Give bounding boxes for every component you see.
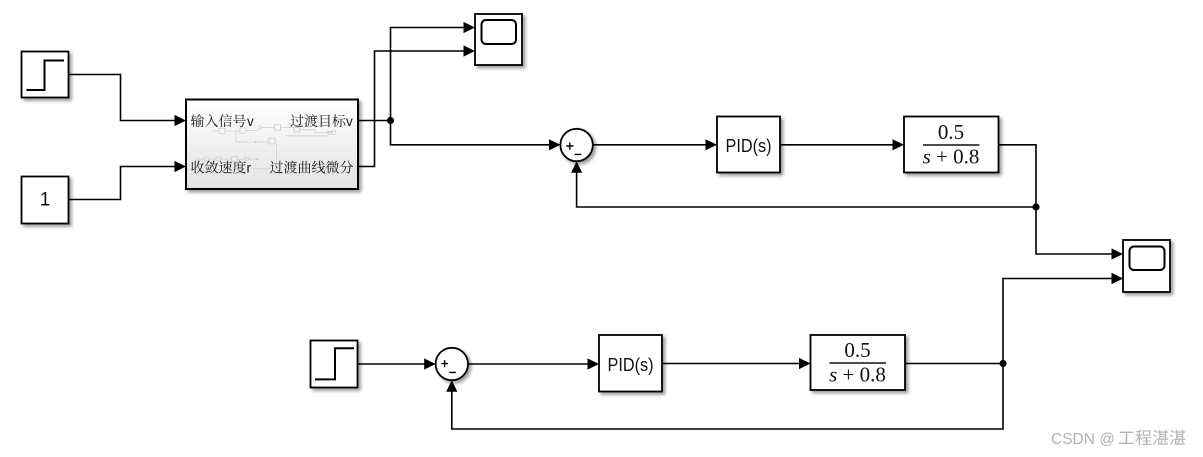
svg-text:0.5: 0.5 — [938, 120, 964, 144]
svg-text:0.5: 0.5 — [844, 338, 870, 362]
svg-text:s + 0.8: s + 0.8 — [829, 363, 886, 387]
svg-text:s + 0.8: s + 0.8 — [923, 145, 980, 169]
svg-text:v: v — [346, 114, 353, 129]
svg-text:r: r — [247, 160, 252, 175]
svg-text:1: 1 — [40, 190, 51, 211]
svg-text:v: v — [247, 114, 254, 129]
svg-text:PID(s): PID(s) — [726, 136, 772, 156]
svg-text:CSDN @: CSDN @ — [1051, 431, 1115, 448]
svg-text:PID(s): PID(s) — [608, 355, 654, 375]
